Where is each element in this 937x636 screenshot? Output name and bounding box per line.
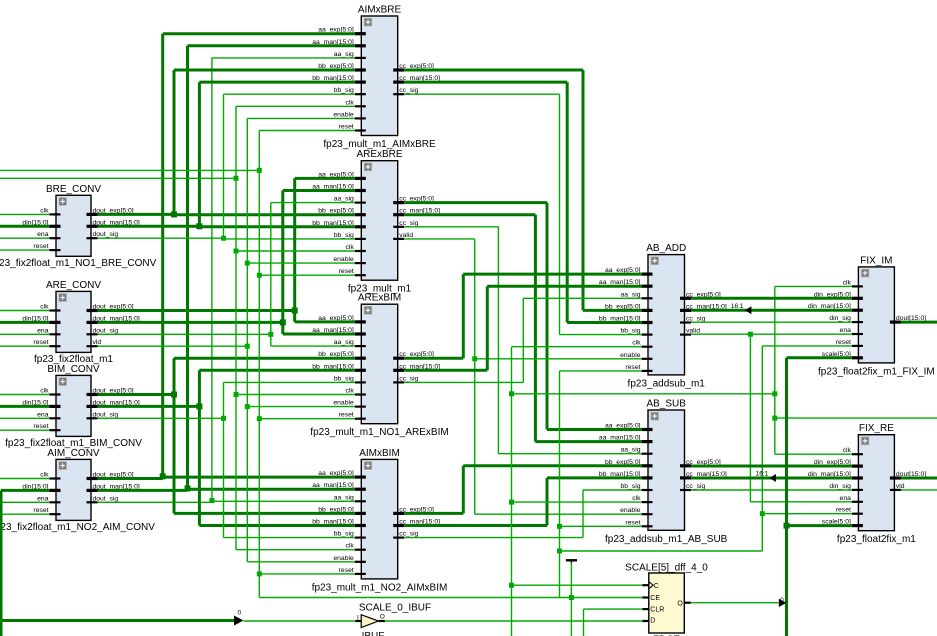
wire AIM_CONV.dout_man bus — [98, 46, 355, 492]
svg-text:reset: reset — [836, 339, 851, 346]
svg-text:16:1: 16:1 — [756, 471, 769, 478]
wire reset distribution right — [557, 346, 852, 598]
svg-text:clk: clk — [345, 99, 354, 106]
svg-text:aa_sig: aa_sig — [620, 291, 640, 298]
svg-text:valid: valid — [399, 232, 413, 239]
svg-text:fp23_float2fix_m1: fp23_float2fix_m1 — [837, 534, 916, 545]
svg-text:IBUF: IBUF — [362, 631, 385, 636]
svg-text:BRE_CONV: BRE_CONV — [46, 184, 101, 195]
svg-text:dout_sig: dout_sig — [93, 411, 119, 418]
wire BIM_CONV.dout_sig — [98, 382, 355, 537]
svg-text:cc_sig: cc_sig — [686, 316, 705, 323]
svg-text:I: I — [357, 615, 359, 622]
svg-text:BIM_CONV: BIM_CONV — [47, 364, 100, 375]
instance FIX_IM (fp23_float2fix_m1_FIX_IM) — [808, 255, 935, 377]
instance BRE_CONV (fp23_fix2float_m1_NO1_BRE_CONV) — [0, 184, 157, 269]
svg-text:fp23_mult_m1_NO1_ARExBIM: fp23_mult_m1_NO1_ARExBIM — [310, 427, 448, 438]
svg-text:bb_sig: bb_sig — [334, 375, 354, 382]
wire AIM_CONV.dout_sig — [98, 58, 355, 503]
svg-text:fp23_fix2float_m1_NO2_AIM_CONV: fp23_fix2float_m1_NO2_AIM_CONV — [0, 522, 155, 533]
instance AB_SUB (fp23_addsub_m1_AB_SUB) — [599, 399, 728, 545]
svg-text:dout_sig: dout_sig — [93, 495, 119, 502]
wire AIMxBIM.cc_exp bus — [404, 466, 642, 514]
wire clk distribution left — [0, 106, 355, 549]
svg-text:cc_sig: cc_sig — [399, 87, 418, 94]
wire FIX_RE.vld to right edge — [901, 489, 937, 491]
svg-text:bb_sig: bb_sig — [334, 531, 354, 538]
wire AIM_CONV.dout_exp bus — [98, 34, 355, 480]
wire FIX_IM.dout bus to right edge — [901, 321, 937, 324]
wire ARExBRE.cc_exp bus — [404, 203, 642, 430]
svg-text:cc_sig: cc_sig — [399, 531, 418, 538]
svg-text:aa_sig: aa_sig — [620, 447, 640, 454]
wire ARExBRE.cc_sig — [404, 227, 642, 454]
svg-text:bb_sig: bb_sig — [334, 87, 354, 94]
svg-text:aa_sig: aa_sig — [334, 494, 354, 501]
svg-text:O: O — [380, 614, 385, 621]
svg-text:reset: reset — [625, 519, 640, 526]
svg-text:reset: reset — [33, 423, 48, 430]
wire reset distribution left — [0, 131, 642, 601]
instance ARExBRE (fp23_mult_m1) — [312, 149, 440, 295]
wire AIM_CONV.din bus from SCALE trunk — [1, 490, 235, 636]
wire FDCE.O to SCALE bus — [691, 597, 786, 607]
svg-text:aa_sig: aa_sig — [334, 196, 354, 203]
wire AB_ADD.valid to FIX ena — [691, 332, 852, 502]
wire FDCE.CLR from bottom edge — [584, 609, 643, 636]
svg-text:clk: clk — [632, 340, 641, 347]
svg-text:ARE_CONV: ARE_CONV — [46, 280, 101, 291]
svg-text:reset: reset — [339, 567, 354, 574]
svg-text:CE: CE — [650, 595, 660, 602]
svg-text:bb_sig: bb_sig — [334, 232, 354, 239]
wire AB_SUB.cc_exp bus — [691, 465, 852, 468]
wire AB_ADD.cc_exp bus — [691, 297, 852, 300]
svg-text:C: C — [654, 583, 659, 590]
svg-text:ARExBIM: ARExBIM — [358, 293, 401, 304]
svg-text:AIM_CONV: AIM_CONV — [47, 448, 100, 459]
svg-text:clk: clk — [40, 472, 49, 479]
wire BRE_CONV.dout_exp bus — [98, 70, 355, 217]
svg-text:vld: vld — [896, 483, 905, 490]
wire ARExBIM.cc_sig — [404, 298, 642, 382]
wire AB_SUB.cc_man bus — [691, 471, 852, 482]
instance AIMxBRE (fp23_mult_m1_AIMxBRE) — [312, 5, 440, 151]
instance ARE_CONV (fp23_fix2float_m1) — [22, 280, 139, 365]
svg-text:fp23_addsub_m1: fp23_addsub_m1 — [628, 378, 706, 389]
wire AB_SUB.cc_sig — [691, 489, 852, 491]
wire clk distribution right — [509, 286, 937, 636]
wire ARE_CONV.dout_sig — [98, 203, 355, 347]
svg-text:FIX_IM: FIX_IM — [860, 255, 892, 266]
svg-text:AIMxBIM: AIMxBIM — [359, 448, 400, 459]
svg-text:ena: ena — [840, 495, 852, 502]
wire ARExBRE.cc_man bus — [404, 215, 642, 442]
wire AIMxBRE.cc_sig — [404, 94, 642, 334]
svg-text:cc_sig: cc_sig — [399, 220, 418, 227]
instance AB_ADD (fp23_addsub_m1) — [599, 243, 727, 389]
wire ground stem to FDCE.CE — [570, 563, 572, 636]
svg-text:enable: enable — [620, 352, 641, 359]
instance FIX_RE (fp23_float2fix_m1) — [808, 423, 926, 545]
svg-text:cc_sig: cc_sig — [399, 375, 418, 382]
wire BRE_CONV inputs from left edge — [0, 214, 50, 250]
svg-text:bb_sig: bb_sig — [620, 483, 640, 490]
svg-text:cc_sig: cc_sig — [686, 483, 705, 490]
svg-text:ARExBRE: ARExBRE — [356, 149, 402, 160]
svg-text:clk: clk — [632, 495, 641, 502]
svg-text:reset: reset — [33, 507, 48, 514]
wire BRE_CONV.dout_man bus — [98, 82, 355, 229]
wire SCALE_0 to IBUF input — [244, 620, 356, 622]
svg-text:FIX_RE: FIX_RE — [859, 423, 894, 434]
svg-text:ena: ena — [37, 231, 49, 238]
instance AIMxBIM (fp23_mult_m1_NO2_AIMxBIM) — [312, 448, 448, 594]
instance BIM_CONV (fp23_fix2float_m1_BIM_CONV) — [5, 364, 142, 449]
wire AIMxBRE.cc_man bus — [404, 82, 642, 322]
svg-text:dout_sig: dout_sig — [93, 231, 119, 238]
svg-text:0: 0 — [780, 597, 784, 604]
svg-text:ena: ena — [840, 327, 852, 334]
svg-text:enable: enable — [333, 555, 354, 562]
svg-text:fp23_addsub_m1_AB_SUB: fp23_addsub_m1_AB_SUB — [605, 534, 728, 545]
svg-text:D: D — [650, 617, 655, 624]
wire BIM_CONV inputs from left edge — [0, 395, 50, 431]
svg-text:enable: enable — [620, 507, 641, 514]
svg-text:clk: clk — [40, 207, 49, 214]
svg-text:enable: enable — [333, 111, 354, 118]
instance ARExBIM (fp23_mult_m1_NO1_ARExBIM) — [310, 293, 448, 439]
svg-text:din_sig: din_sig — [829, 483, 851, 490]
svg-text:fp23_fix2float_m1_NO1_BRE_CONV: fp23_fix2float_m1_NO1_BRE_CONV — [0, 258, 157, 269]
svg-text:clk: clk — [40, 388, 49, 395]
svg-text:clk: clk — [40, 304, 49, 311]
svg-text:AIMxBRE: AIMxBRE — [358, 5, 402, 16]
svg-text:vld: vld — [93, 339, 102, 346]
svg-text:clk: clk — [843, 279, 852, 286]
flip-flop SCALE[5]_dff_4_0 (FDCE) — [625, 563, 708, 636]
svg-text:reset: reset — [33, 243, 48, 250]
svg-text:ena: ena — [37, 327, 49, 334]
svg-text:dout_sig: dout_sig — [93, 327, 119, 334]
svg-text:SCALE_0_IBUF: SCALE_0_IBUF — [359, 602, 431, 613]
svg-text:din_sig: din_sig — [829, 315, 851, 322]
svg-text:ena: ena — [37, 495, 49, 502]
svg-text:clk: clk — [843, 447, 852, 454]
svg-text:reset: reset — [339, 124, 354, 131]
svg-text:fp23_mult_m1_NO2_AIMxBIM: fp23_mult_m1_NO2_AIMxBIM — [312, 582, 448, 593]
wire ARE_CONV.dout_man bus — [98, 191, 355, 335]
svg-text:clk: clk — [345, 388, 354, 395]
svg-text:enable: enable — [333, 400, 354, 407]
wire ARE_CONV.dout_exp bus — [98, 178, 355, 322]
buffer SCALE_0_IBUF (IBUF) — [355, 602, 431, 636]
svg-text:AB_ADD: AB_ADD — [646, 243, 686, 254]
svg-text:0: 0 — [238, 610, 242, 617]
svg-text:SCALE[5]_dff_4_0: SCALE[5]_dff_4_0 — [625, 563, 708, 574]
svg-text:enable: enable — [333, 256, 354, 263]
svg-text:16:1: 16:1 — [731, 303, 744, 310]
svg-text:clk: clk — [345, 543, 354, 550]
wire ARExBIM.cc_man bus — [404, 286, 642, 370]
wire AIM_CONV inputs from left edge — [0, 479, 50, 515]
svg-text:aa_sig: aa_sig — [334, 339, 354, 346]
wire AB_ADD.cc_man bus — [691, 303, 852, 314]
svg-text:bb_sig: bb_sig — [620, 328, 640, 335]
ground — [566, 560, 577, 563]
svg-text:reset: reset — [339, 412, 354, 419]
svg-text:reset: reset — [33, 339, 48, 346]
svg-text:reset: reset — [339, 268, 354, 275]
svg-text:O: O — [677, 600, 683, 607]
wire BRE_CONV.dout_sig — [98, 94, 355, 241]
wire AIMxBIM.cc_sig — [404, 490, 642, 538]
wire SCALE bus to FIX scale inputs — [784, 358, 852, 636]
wire enable distribution (ARE_CONV.vld) — [98, 118, 355, 561]
wire ARExBRE.valid to adder enables — [404, 239, 642, 514]
svg-text:aa_sig: aa_sig — [334, 51, 354, 58]
svg-text:AB_SUB: AB_SUB — [646, 399, 686, 410]
svg-text:clk: clk — [345, 244, 354, 251]
wire IBUF output to FDCE.D — [385, 620, 642, 622]
instance AIM_CONV (fp23_fix2float_m1_NO2_AIM_CONV) — [0, 448, 155, 533]
wire BIM_CONV.dout_man bus — [98, 370, 355, 525]
bus taper arrow SCALE(0) — [234, 610, 244, 626]
wire AIMxBIM.cc_man bus — [404, 478, 642, 526]
wire FIX_RE.dout bus to right edge — [901, 477, 937, 480]
wire ARExBIM.cc_exp bus — [404, 274, 642, 358]
wire BIM_CONV.dout_exp bus — [98, 358, 355, 513]
svg-text:ena: ena — [37, 411, 49, 418]
svg-text:reset: reset — [625, 364, 640, 371]
svg-text:CLR: CLR — [650, 607, 664, 614]
svg-text:reset: reset — [836, 507, 851, 514]
svg-text:fp23_float2fix_m1_FIX_IM: fp23_float2fix_m1_FIX_IM — [818, 366, 935, 377]
wire AB_ADD.cc_sig — [691, 321, 852, 323]
wire AIMxBRE.cc_exp bus — [404, 70, 642, 310]
wire ARE_CONV inputs from left edge — [0, 311, 50, 347]
